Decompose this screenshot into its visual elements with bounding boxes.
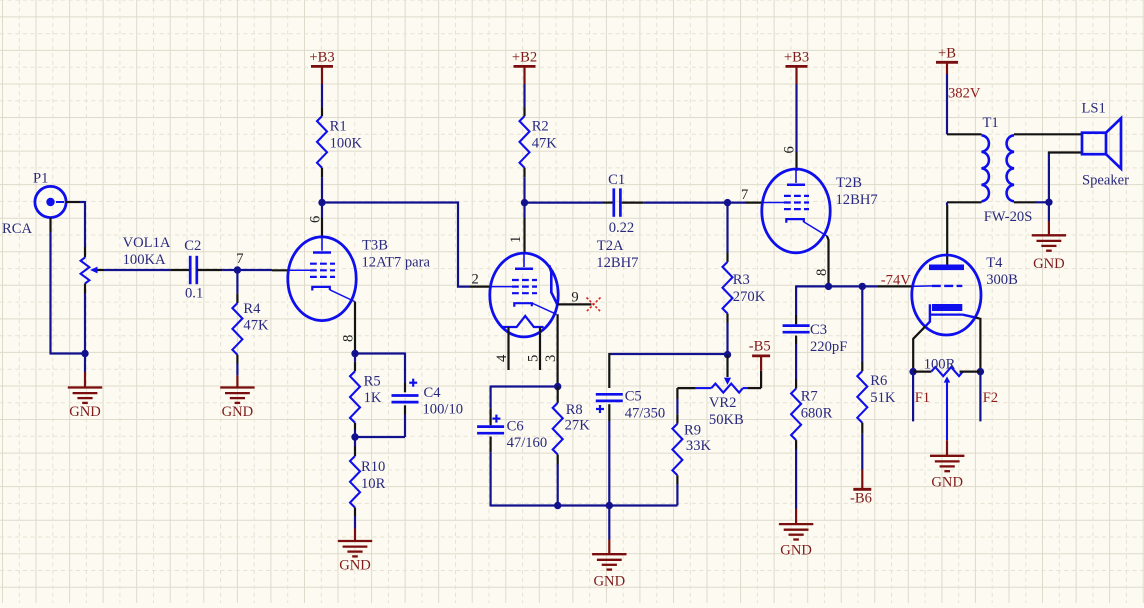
pin speaker top [1040, 133, 1082, 135]
resistor R4 47K [232, 270, 269, 364]
svg-text:+B2: +B2 [512, 49, 537, 65]
svg-text:VR2: VR2 [709, 395, 737, 411]
svg-text:-B6: -B6 [850, 490, 872, 506]
resistor R8 27K [553, 387, 590, 506]
ground R10 [338, 516, 372, 574]
svg-text:R5: R5 [364, 373, 381, 389]
capacitor C3 220pF [783, 285, 848, 379]
ground P1 [68, 354, 102, 420]
wire R1 to plate node [321, 177, 323, 202]
node speaker gnd junction [1045, 199, 1052, 206]
wire T2B cathode bus [796, 285, 878, 287]
pin 6 T2B [782, 146, 798, 171]
tube T4 300B [912, 255, 1018, 335]
wire secondary bottom to gnd node [1035, 153, 1049, 204]
resistor R2 47K [520, 107, 558, 177]
no-connect X pin 9 [587, 298, 601, 312]
svg-text:T2B: T2B [836, 175, 862, 191]
svg-text:R9: R9 [684, 423, 701, 439]
svg-text:GND: GND [339, 558, 371, 574]
wire plate node to C1 [525, 202, 604, 204]
svg-text:R10: R10 [361, 459, 385, 475]
svg-text:R7: R7 [801, 389, 818, 405]
potentiometer VOL1A 100KA [81, 235, 171, 293]
svg-text:F1: F1 [915, 390, 930, 406]
svg-text:1: 1 [508, 236, 524, 243]
svg-text:382V: 382V [948, 86, 981, 102]
svg-text:RCA: RCA [2, 221, 32, 237]
pin 8 T3B [341, 302, 357, 354]
svg-text:100KA: 100KA [123, 252, 166, 268]
resistor R1 100K [317, 107, 362, 177]
svg-text:7: 7 [236, 251, 243, 267]
wire cathode to C4 [355, 352, 405, 354]
svg-text:2: 2 [472, 272, 479, 288]
node pot/P1/gnd junction [81, 350, 88, 357]
svg-text:GND: GND [1033, 256, 1065, 272]
svg-text:+B: +B [938, 45, 956, 61]
resistor R6 51K [857, 286, 896, 433]
svg-text:T1: T1 [983, 115, 999, 131]
svg-text:+B3: +B3 [784, 49, 809, 65]
pin 6 T3B [308, 203, 324, 237]
capacitor C1 0.22 [603, 172, 643, 236]
wire bottom bus [491, 504, 678, 506]
svg-text:FW-20S: FW-20S [984, 209, 1033, 225]
svg-text:R8: R8 [566, 402, 583, 418]
connector P1 RCA [2, 171, 66, 238]
pin P1 bottom [49, 218, 51, 232]
svg-text:51K: 51K [870, 390, 896, 406]
svg-text:100/10: 100/10 [423, 402, 464, 418]
wire +B2 to R2 [523, 84, 525, 107]
wire P1 to pot [80, 201, 85, 247]
svg-text:GND: GND [780, 543, 812, 559]
svg-text:F2: F2 [983, 390, 998, 406]
pin 1 T2A [508, 203, 525, 254]
wire P1 shield down [50, 232, 86, 354]
svg-text:100K: 100K [330, 136, 363, 152]
resistor R9 33K [672, 388, 711, 505]
node C5 bottom [606, 502, 613, 509]
svg-text:50KB: 50KB [709, 412, 744, 428]
svg-text:33K: 33K [686, 438, 712, 454]
pin 7 T3B [236, 251, 288, 270]
svg-text:R1: R1 [330, 119, 347, 135]
node C2/R4/grid junction [234, 266, 241, 273]
power +B [936, 45, 958, 74]
wire F1 stub [912, 372, 914, 422]
svg-text:7: 7 [741, 187, 748, 203]
svg-text:VOL1A: VOL1A [123, 235, 171, 251]
wire C4 bottom to cathode leg [355, 436, 405, 438]
svg-text:27K: 27K [565, 417, 591, 433]
potentiometer 100R hum balance [913, 356, 980, 440]
pin 8 T2B [814, 236, 830, 286]
svg-text:270K: 270K [733, 289, 766, 305]
capacitor C5 47/350 [596, 353, 665, 506]
svg-text:12BH7: 12BH7 [596, 255, 638, 271]
node R8 bottom [554, 502, 561, 509]
wire C1 to T2B grid [643, 202, 727, 204]
triode T2A 12BH7 [490, 238, 639, 337]
capacitor C4 100/10 [392, 353, 464, 438]
wire F2 stub [979, 372, 981, 422]
node R6 junction [859, 283, 866, 290]
pin 3 T2A [543, 314, 559, 386]
pin 2 T2A [470, 272, 492, 288]
svg-text:6: 6 [782, 146, 798, 153]
capacitor C2 0.1 [170, 238, 222, 302]
svg-text:-B5: -B5 [749, 339, 771, 355]
svg-text:4: 4 [494, 354, 510, 362]
ground speaker [1032, 202, 1066, 272]
pin T4 filament left [913, 326, 925, 371]
svg-text:GND: GND [593, 574, 625, 590]
svg-text:3: 3 [543, 355, 559, 362]
power +B2 [512, 49, 537, 84]
node VR2 junction [724, 351, 731, 358]
svg-text:T2A: T2A [597, 238, 624, 254]
svg-text:1K: 1K [364, 390, 382, 406]
resistor R5 1K [350, 354, 382, 438]
transformer T1 FW-20S [947, 115, 1040, 225]
svg-text:R3: R3 [733, 272, 750, 288]
pin 9 T2A [558, 289, 592, 305]
svg-text:9: 9 [571, 289, 578, 305]
svg-text:5: 5 [526, 355, 542, 362]
node C1/R3/T2B junction [724, 199, 731, 206]
wire R2 to plate node [523, 177, 525, 202]
svg-text:47K: 47K [243, 318, 269, 334]
wire +B down [946, 74, 948, 134]
pin P1 right [66, 201, 80, 203]
svg-text:10R: 10R [361, 476, 386, 492]
svg-text:8: 8 [814, 269, 830, 276]
wire junction to pin 7 [237, 269, 272, 271]
resistor R7 680R [791, 379, 832, 450]
pin 4 T2A [494, 327, 510, 370]
ground C5 bus [592, 506, 626, 590]
power +B3 [309, 49, 334, 84]
wire VR2 bus [609, 353, 727, 355]
svg-text:R6: R6 [870, 373, 887, 389]
pin 7 T2B [728, 187, 763, 203]
svg-text:T3B: T3B [362, 237, 388, 253]
node C3 junction [825, 283, 832, 290]
svg-text:680R: 680R [801, 406, 833, 422]
svg-text:12BH7: 12BH7 [836, 192, 878, 208]
wire C6 box top [491, 385, 558, 387]
svg-text:Speaker: Speaker [1082, 172, 1129, 188]
power -B6 [850, 434, 872, 507]
pin grid T4 [878, 285, 912, 287]
svg-text:GND: GND [931, 474, 963, 490]
svg-text:47K: 47K [532, 136, 558, 152]
pin speaker bottom [1048, 151, 1082, 153]
svg-text:12AT7 para: 12AT7 para [362, 254, 431, 270]
resistor R10 10R [350, 437, 386, 516]
pin T4 filament right [975, 317, 980, 371]
ground R7 [779, 450, 813, 559]
resistor R3 270K [723, 203, 766, 355]
svg-text:P1: P1 [33, 171, 48, 187]
wire plate node to T2A grid [322, 203, 470, 287]
svg-text:6: 6 [308, 216, 324, 223]
svg-text:T4: T4 [986, 255, 1003, 271]
pin 5 T2A [526, 327, 542, 370]
svg-text:47/160: 47/160 [507, 435, 548, 451]
wire junction down to wiper [726, 355, 728, 377]
svg-text:C2: C2 [184, 238, 201, 254]
svg-text:C6: C6 [507, 418, 524, 434]
speaker LS1 [1082, 101, 1130, 189]
triode T3B 12AT7 para [288, 237, 431, 321]
svg-text:C5: C5 [625, 389, 642, 405]
svg-text:300B: 300B [986, 272, 1018, 288]
node R5/R10/C4 junction [351, 433, 358, 440]
node T2A plate junction [521, 199, 528, 206]
svg-text:R4: R4 [243, 301, 261, 317]
svg-text:C1: C1 [608, 172, 625, 188]
wire C2 to T3B grid [222, 269, 237, 271]
svg-text:100R: 100R [924, 356, 956, 372]
power -B5 [749, 339, 771, 389]
svg-text:0.22: 0.22 [609, 220, 635, 236]
svg-text:0.1: 0.1 [185, 286, 203, 302]
svg-text:GND: GND [69, 404, 101, 420]
svg-text:+B3: +B3 [309, 49, 334, 65]
svg-text:C3: C3 [810, 322, 827, 338]
svg-text:47/350: 47/350 [625, 405, 666, 421]
wire pot wiper to C2 [104, 269, 170, 271]
svg-text:220pF: 220pF [810, 339, 847, 355]
ground R4 [220, 364, 254, 421]
svg-text:GND: GND [222, 404, 254, 420]
node T3B cathode junction [351, 350, 358, 357]
node F2 junction [977, 368, 984, 375]
node T3B plate junction [318, 199, 325, 206]
svg-text:8: 8 [341, 335, 357, 342]
node pin3/R8/C6 junction [554, 383, 561, 390]
svg-text:LS1: LS1 [1082, 101, 1106, 117]
capacitor C6 47/160 [477, 386, 547, 507]
svg-text:R2: R2 [532, 119, 549, 135]
wire +B3 to R1 [321, 84, 323, 107]
svg-text:C4: C4 [424, 385, 442, 401]
wire primary to T4 plate [946, 202, 948, 205]
pin T4 plate [946, 205, 948, 265]
power +B3 second [784, 49, 809, 84]
potentiometer VR2 50KB [677, 378, 761, 428]
triode T2B 12BH7 [762, 169, 878, 253]
wire pot bottom to gnd node [84, 294, 86, 355]
wire +B3 to T2B plate [795, 84, 797, 152]
ground 100R wiper [930, 440, 964, 490]
node F1 junction [909, 368, 916, 375]
